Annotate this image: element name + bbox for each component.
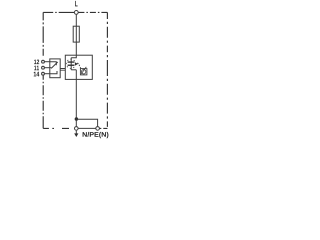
contact 11 pole line xyxy=(50,67,52,69)
wire from arrester box to bottom terminal xyxy=(75,70,77,127)
fuse F1 xyxy=(73,26,79,42)
branch wire to N/PE terminal xyxy=(76,119,97,126)
mechanical linkage to arrester xyxy=(60,69,65,71)
label 11 xyxy=(34,66,39,71)
wire entry jog inside box xyxy=(71,55,76,58)
contact 14 line with up stub xyxy=(50,71,57,74)
disconnector circle xyxy=(81,70,85,74)
enclosure dash-dot border bottom-right segment xyxy=(100,127,108,129)
wire stub terminal 14 xyxy=(43,73,50,75)
label 12 xyxy=(34,60,39,65)
wire L terminal down through fuse to arrester box xyxy=(75,14,77,57)
enclosure dash-dot border left side lower xyxy=(42,75,44,128)
dashed actuation line to disconnector xyxy=(77,63,81,68)
disconnector slash xyxy=(81,67,86,74)
terminal L circle xyxy=(74,11,78,15)
terminal 12 circle xyxy=(42,60,45,63)
actuation arrow from spark gap xyxy=(75,62,78,65)
arrester box U1 xyxy=(65,55,92,79)
enclosure dash-dot border left side upper xyxy=(42,12,44,60)
spark gap electrode bar 2 xyxy=(68,65,75,66)
bottom wire between terminals xyxy=(78,127,96,129)
switch lever xyxy=(51,62,58,68)
disconnector symbol square xyxy=(80,69,87,75)
terminal 14 circle xyxy=(42,72,45,75)
enclosure dash-dot border right side upper xyxy=(106,12,108,70)
wire stub terminal 12 xyxy=(43,61,50,63)
terminal 11 circle xyxy=(42,66,45,69)
terminal N/PE circle xyxy=(96,127,100,131)
enclosure dash-dot border right side lower xyxy=(106,70,108,128)
enclosure dash-dot border bottom-left segment xyxy=(43,127,74,129)
spark gap stem xyxy=(70,58,72,70)
enclosure dash-dot border top-right from L terminal to corner xyxy=(78,11,107,13)
FM changeover contact box S1 xyxy=(50,59,60,78)
terminal PE circle xyxy=(75,127,79,131)
wire stub terminal 11 xyxy=(43,67,50,69)
label N/PE(N) xyxy=(83,132,109,138)
enclosure dash-dot border top-left to L terminal xyxy=(43,11,74,13)
label L xyxy=(75,1,78,7)
label 14 xyxy=(34,72,40,77)
junction dot xyxy=(75,117,79,121)
wire exit jog inside box xyxy=(71,69,76,71)
contact 12 line with down stub xyxy=(50,62,57,65)
earth arrow below PE terminal xyxy=(75,131,77,134)
spark gap encapsulation dashed ring xyxy=(66,59,75,68)
spark gap electrode bar 1 xyxy=(68,61,75,62)
